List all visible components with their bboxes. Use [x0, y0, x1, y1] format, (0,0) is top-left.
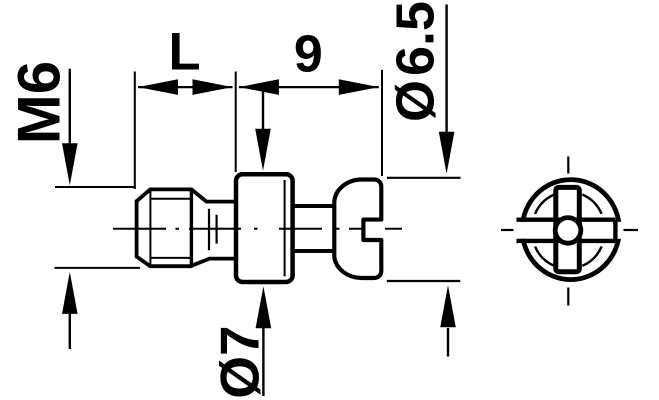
M6 arrow top	[69, 69, 71, 145]
svg-text:9: 9	[294, 26, 323, 84]
center mark top	[567, 157, 569, 174]
bolt head with slot (side view)	[334, 180, 381, 279]
dimension diameter 7 arrow bottom	[262, 328, 264, 396]
arrowhead L left	[138, 79, 178, 95]
dimension diameter 7 arrow top	[262, 92, 264, 131]
svg-text:Ø6.5: Ø6.5	[386, 1, 446, 122]
white band erase	[514, 222, 623, 239]
dimension extension line at flange face	[235, 72, 237, 173]
diameter 6.5 arrow top	[445, 5, 447, 133]
M6 arrow bottom	[69, 314, 71, 349]
center mark right	[624, 229, 639, 231]
dimension M6 extension line bottom	[55, 267, 141, 269]
dimension diameter 6.5 extension line bottom	[387, 280, 461, 282]
dimension L extension line left	[134, 72, 136, 190]
dimension diameter 6.5 extension line top	[387, 177, 461, 179]
neck between flange and head	[293, 206, 335, 251]
dimension M6 extension line top	[55, 186, 136, 188]
center pin circle front view	[555, 218, 581, 244]
center mark bottom	[567, 288, 569, 306]
white void of screwdriver slot notch	[362, 222, 386, 238]
arrowhead 9 right	[339, 79, 379, 95]
diameter 6.5 arrow bottom	[447, 328, 449, 357]
svg-text:M6: M6	[6, 61, 73, 144]
dimension line 9	[239, 86, 379, 88]
arrowhead L right	[193, 79, 233, 95]
thread chamfer and minor-diameter thin lines	[150, 189, 191, 266]
front view outer circle	[522, 180, 619, 280]
svg-text:L: L	[169, 23, 201, 82]
dimension line L	[138, 86, 233, 88]
vertical cross slot of head front view	[556, 187, 580, 271]
flange cylinder (diameter 7)	[236, 174, 293, 282]
flange edge thin line	[284, 180, 286, 276]
screwdriver slot band lines front view	[517, 220, 616, 241]
thread runout marks on neck	[209, 209, 217, 250]
dimension 9 extension line right	[381, 70, 383, 176]
thread M6 side view outline	[137, 189, 236, 266]
center mark left	[501, 229, 514, 231]
svg-text:Ø7: Ø7	[208, 325, 270, 398]
wire centerline of bolt side view	[113, 228, 402, 230]
front view inner thin arcs	[535, 195, 602, 266]
arrowhead 9 left	[239, 79, 279, 95]
